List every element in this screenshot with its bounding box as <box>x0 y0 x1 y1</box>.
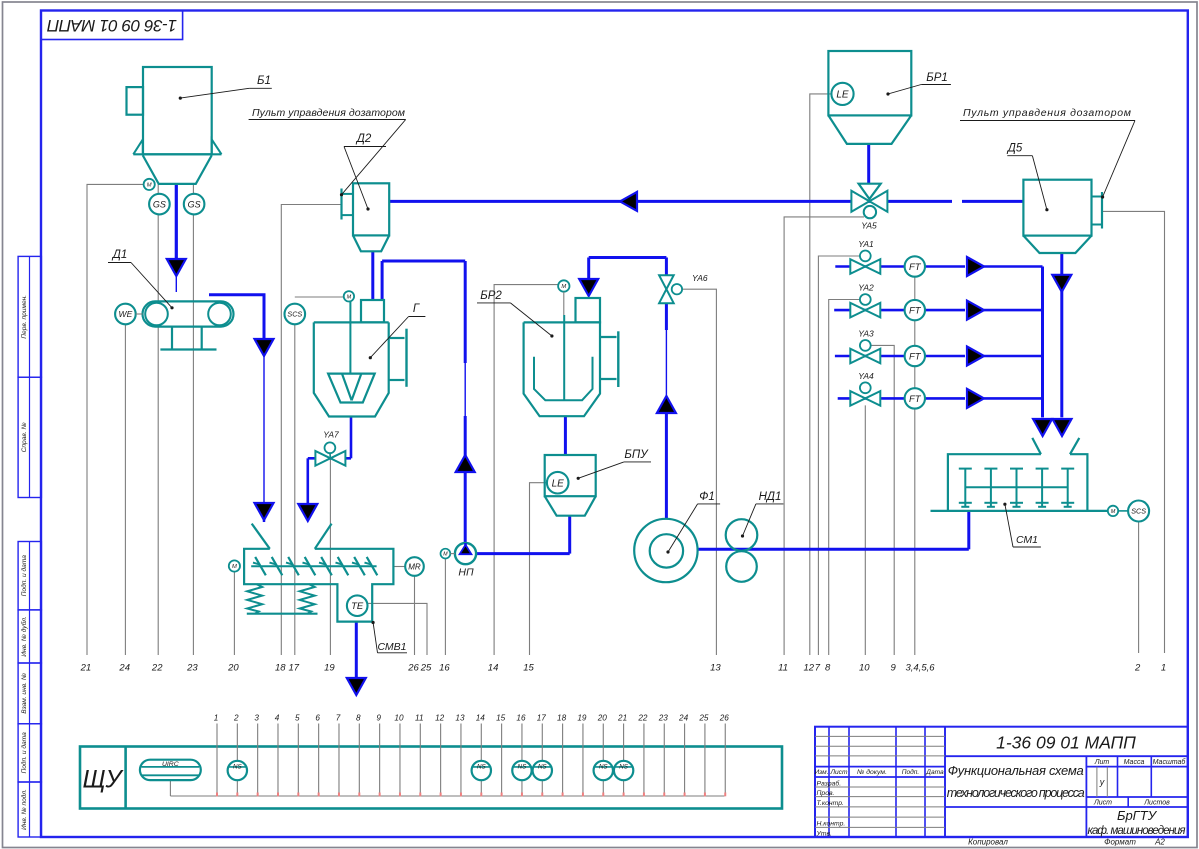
svg-text:2: 2 <box>233 713 239 722</box>
svg-text:Взам. инв. №: Взам. инв. № <box>21 673 28 714</box>
svg-text:24: 24 <box>678 713 689 722</box>
flow transmitter FT4 <box>905 388 925 408</box>
svg-text:21: 21 <box>80 663 92 674</box>
flow arrow on main line (left) <box>620 192 637 211</box>
svg-text:у: у <box>1099 777 1105 787</box>
svg-text:FT: FT <box>909 306 922 317</box>
signal line 10 (YA4) <box>864 405 866 655</box>
svg-text:FT: FT <box>909 351 922 362</box>
flow arrow into СМВ1 right inlet <box>298 504 317 521</box>
flow arrow Д5 line into СМ1 <box>1053 419 1072 436</box>
level sensor LE of БР1 <box>831 83 853 105</box>
svg-text:20: 20 <box>597 713 608 722</box>
svg-text:21: 21 <box>617 713 627 722</box>
svg-text:22: 22 <box>637 713 648 722</box>
motor M of БР2 <box>558 280 569 315</box>
svg-text:6: 6 <box>315 713 320 722</box>
control panel ЩУ box <box>80 747 782 809</box>
svg-text:25: 25 <box>698 713 709 722</box>
signal line 19 (YA7) <box>329 443 331 655</box>
svg-text:Подп. и дата: Подп. и дата <box>20 732 28 774</box>
signal line 15 (LE of БПУ) <box>530 483 547 655</box>
valve YA3 <box>850 340 880 363</box>
label Д2 <box>344 133 386 211</box>
svg-text:GS: GS <box>188 199 201 209</box>
signal line 8 (YA2) <box>829 300 860 656</box>
svg-text:YA7: YA7 <box>323 430 339 440</box>
flow transmitter FT3 <box>905 346 925 366</box>
margin strip Перв. примен. <box>18 256 41 377</box>
svg-text:Копировал: Копировал <box>968 838 1008 847</box>
temperature sensor TE <box>347 595 368 616</box>
doser Д2 <box>342 183 390 251</box>
svg-text:БПУ: БПУ <box>624 449 649 461</box>
flow transmitter FT2 <box>905 300 925 320</box>
panel lamp NS (line 20) <box>594 761 613 780</box>
svg-text:Перв. примен.: Перв. примен. <box>21 295 28 339</box>
svg-text:9: 9 <box>891 663 897 674</box>
valve YA5 <box>851 184 887 219</box>
flow arrow Д5 outlet <box>1052 275 1071 292</box>
signal line 17 (SCS) <box>294 304 296 655</box>
svg-text:Б1: Б1 <box>257 75 271 87</box>
collector pipe YA1-YA4 to СМ1 <box>1041 267 1044 418</box>
svg-text:NS: NS <box>538 763 547 770</box>
svg-text:8: 8 <box>825 663 831 674</box>
hopper Б1 <box>127 67 222 184</box>
level switch GS left <box>149 194 170 215</box>
pipe Б1 outlet <box>175 184 178 292</box>
svg-text:FT: FT <box>909 262 922 273</box>
panel wiring lines 1-26 <box>217 724 725 797</box>
panel line numbers 1-26 <box>214 713 730 722</box>
signal line 12 (LE of БР1) <box>810 94 832 655</box>
valve YA6 <box>659 275 682 303</box>
svg-text:технологического процесса: технологического процесса <box>947 786 1085 800</box>
signal line 3,4,5,6 (FT common) <box>914 267 916 656</box>
label YA1 <box>858 239 874 249</box>
dosing line YA4 <box>838 397 1043 400</box>
label YA6 <box>692 273 708 283</box>
margin strip Взам. инв. № <box>18 663 41 724</box>
svg-text:NS: NS <box>233 763 242 770</box>
svg-text:11: 11 <box>415 713 424 722</box>
flow transmitter FT1 <box>905 256 925 276</box>
svg-text:LE: LE <box>836 90 849 101</box>
dosing line YA3 <box>835 355 1043 358</box>
pipe БР1 outlet into YA5 <box>867 144 870 184</box>
svg-text:Разраб.: Разраб. <box>817 779 842 787</box>
margin strip Инв. № подл. <box>18 782 41 837</box>
svg-text:каф. машиноведения: каф. машиноведения <box>1088 825 1186 837</box>
svg-text:24: 24 <box>118 663 130 674</box>
signal line numbers row <box>80 663 1167 674</box>
svg-text:Пульт управдения дозатором: Пульт управдения дозатором <box>963 107 1131 119</box>
svg-text:YA1: YA1 <box>858 239 874 249</box>
belt feeder Д1 <box>143 301 234 349</box>
label YA7 <box>323 430 339 440</box>
svg-text:Подп. и дата: Подп. и дата <box>20 555 28 597</box>
svg-text:SCS: SCS <box>1131 507 1146 516</box>
pipe НП riser to Г <box>382 261 465 543</box>
pipe Д1 to СМВ1 <box>209 295 264 522</box>
svg-text:M: M <box>1111 509 1116 515</box>
svg-text:Д5: Д5 <box>1006 143 1023 155</box>
signal line 13 (YA6) <box>682 289 717 655</box>
svg-text:Листов: Листов <box>1143 800 1170 807</box>
motor M of Б1 <box>144 179 155 190</box>
flow arrow СМВ1 discharge <box>347 678 366 695</box>
main dosing line Д2-Д5 <box>389 200 1023 203</box>
flow arrow up to YA6 <box>657 396 676 413</box>
svg-text:SCS: SCS <box>287 310 302 319</box>
label БР1 <box>886 72 951 96</box>
svg-text:Т.контр.: Т.контр. <box>817 800 845 807</box>
pipe Д2 outlet into Г <box>371 251 374 300</box>
signal line 16 (M of НП) <box>444 558 446 655</box>
label НП <box>458 567 474 579</box>
signal line SCS-M link <box>295 296 345 298</box>
svg-text:14: 14 <box>488 663 499 674</box>
motor M of НП <box>441 549 455 559</box>
svg-text:M: M <box>561 284 566 290</box>
svg-text:YA5: YA5 <box>861 221 877 231</box>
speed sensor SCS <box>285 304 306 325</box>
label Ф1 <box>666 491 720 554</box>
svg-text:Изм.: Изм. <box>814 769 828 776</box>
label СМ1 <box>1003 503 1041 547</box>
panel lamp NS (line 16) <box>512 761 531 780</box>
doser Д5 <box>1023 180 1102 253</box>
svg-text:5: 5 <box>295 713 300 722</box>
signal line 21 (M of Б1) <box>87 184 144 655</box>
signal line MR link <box>393 566 405 568</box>
panel lamp NS (line 2) <box>228 761 247 780</box>
svg-text:Подп.: Подп. <box>902 768 920 776</box>
margin strip Справ. № <box>18 377 41 497</box>
valve YA7 <box>315 442 345 465</box>
svg-text:10: 10 <box>394 713 404 722</box>
valve YA4 <box>850 382 880 405</box>
svg-text:3: 3 <box>254 713 259 722</box>
svg-text:MR: MR <box>408 562 421 571</box>
svg-text:13: 13 <box>455 713 465 722</box>
signal line 11 (YA5) <box>784 217 864 655</box>
svg-text:26: 26 <box>407 663 419 674</box>
label YA2 <box>858 283 874 293</box>
panel lamp NS (line 14) <box>472 761 491 780</box>
svg-text:YA2: YA2 <box>858 283 874 293</box>
flow arrow into Д1 <box>167 259 186 276</box>
dosing line YA1 <box>835 265 1042 268</box>
svg-text:№ докум.: № докум. <box>857 768 887 776</box>
svg-text:12: 12 <box>435 713 445 722</box>
pump НП <box>455 543 476 564</box>
svg-text:12: 12 <box>804 663 815 674</box>
flow arrow into БР2 neck <box>579 279 598 296</box>
svg-text:1-36 09 01 МАПП: 1-36 09 01 МАПП <box>46 16 177 35</box>
dosing line YA2 <box>834 309 1042 312</box>
flow arrow YA1 line <box>967 257 984 276</box>
flow arrow YA3 line <box>967 347 984 366</box>
svg-text:4: 4 <box>275 713 280 722</box>
label БР2 <box>477 290 554 338</box>
signal line 7 (YA1) <box>818 256 860 655</box>
flow arrow YA4 line <box>967 389 984 408</box>
svg-text:БрГТУ: БрГТУ <box>1117 808 1158 823</box>
svg-text:7: 7 <box>336 713 341 722</box>
mixer-batcher СМВ1 <box>244 524 393 622</box>
svg-text:15: 15 <box>523 663 534 674</box>
svg-text:22: 22 <box>151 663 163 674</box>
svg-text:1-36 09 01 МАПП: 1-36 09 01 МАПП <box>996 733 1136 753</box>
motor M of СМ1 <box>1108 506 1128 516</box>
signal line 26 (MR) <box>414 576 416 655</box>
signal line 25 (TE) <box>367 603 427 655</box>
svg-text:18: 18 <box>275 663 286 674</box>
svg-text:17: 17 <box>537 713 547 722</box>
motor M of Г <box>344 291 354 301</box>
svg-text:NS: NS <box>518 763 527 770</box>
svg-text:NS: NS <box>599 763 608 770</box>
svg-text:СМ1: СМ1 <box>1016 534 1038 546</box>
svg-text:2: 2 <box>1134 663 1141 674</box>
svg-text:Функциональная схема: Функциональная схема <box>948 763 1084 778</box>
svg-text:Пульт управдения дозатором: Пульт управдения дозатором <box>252 107 405 119</box>
svg-text:НП: НП <box>458 567 474 579</box>
svg-text:UIRC: UIRC <box>162 761 179 768</box>
svg-text:Пров.: Пров. <box>817 790 835 797</box>
pipe Д5 outlet <box>1060 253 1063 417</box>
svg-text:20: 20 <box>227 663 239 674</box>
label Б1 <box>179 75 272 100</box>
margin strip Подп. и дата (1) <box>18 542 41 610</box>
label Д1 <box>108 249 174 309</box>
panel red terminals <box>217 793 725 797</box>
pipe Г outlet through YA7 <box>308 417 351 506</box>
label YA4 <box>858 371 874 381</box>
level sensor LE of БПУ <box>547 472 569 494</box>
svg-text:23: 23 <box>658 713 669 722</box>
svg-text:Лист: Лист <box>830 769 848 776</box>
signal line 24 (WE of Д1) <box>124 324 126 655</box>
flow arrow collector into СМ1 <box>1033 419 1052 436</box>
svg-text:LE: LE <box>552 478 565 489</box>
svg-text:FT: FT <box>909 394 922 405</box>
svg-text:NS: NS <box>477 763 486 770</box>
label control panel (Д5) <box>960 107 1135 199</box>
svg-text:19: 19 <box>324 663 335 674</box>
svg-text:WE: WE <box>119 309 133 319</box>
svg-text:Ф1: Ф1 <box>699 491 715 503</box>
svg-text:Утв.: Утв. <box>816 830 833 837</box>
label YA3 <box>858 329 874 339</box>
svg-text:А2: А2 <box>1154 838 1165 847</box>
svg-text:M: M <box>443 551 448 557</box>
svg-text:Инв. № подл.: Инв. № подл. <box>20 789 28 830</box>
svg-text:ЩУ: ЩУ <box>82 766 124 794</box>
signal line 20 (M of СМВ1) <box>233 572 235 656</box>
motor M of СМВ1 <box>229 560 240 571</box>
signal line 22 (GS left) <box>157 184 159 655</box>
recorder UIRC <box>140 760 201 780</box>
tank БР1 <box>828 51 911 144</box>
flow arrow into СМВ1 left inlet <box>255 503 274 520</box>
pipe БР2 outlet to БПУ <box>564 416 567 455</box>
sifter Ф1 <box>634 519 697 582</box>
weight sensor WE <box>115 304 142 325</box>
svg-text:БР2: БР2 <box>480 290 502 302</box>
panel lamp NS (line 21) <box>614 761 633 780</box>
label БПУ <box>577 449 651 480</box>
svg-text:10: 10 <box>859 663 870 674</box>
svg-text:Справ. №: Справ. № <box>21 422 28 452</box>
title block <box>814 727 1187 847</box>
svg-text:YA4: YA4 <box>858 371 874 381</box>
signal line 14 (M of БР2) <box>494 285 558 655</box>
svg-text:15: 15 <box>496 713 506 722</box>
svg-text:23: 23 <box>186 663 198 674</box>
panel lamp NS (line 17) <box>533 761 552 780</box>
panel bus line <box>170 780 724 796</box>
flow arrow YA2 line <box>967 301 984 320</box>
svg-text:Н.контр.: Н.контр. <box>817 821 846 828</box>
signal line 2 (SCS of СМ1) <box>1138 522 1140 654</box>
grinder Г <box>314 300 407 417</box>
level switch GS right <box>184 194 205 215</box>
svg-text:НД1: НД1 <box>759 491 782 503</box>
pipe СМВ1 product discharge <box>355 622 358 678</box>
label НД1 <box>741 491 784 538</box>
svg-text:25: 25 <box>420 663 432 674</box>
svg-text:1: 1 <box>214 713 219 722</box>
svg-text:Д1: Д1 <box>111 249 128 261</box>
svg-text:Формат: Формат <box>1104 838 1136 847</box>
margin strip Подп. и дата (2) <box>18 724 41 782</box>
svg-text:Инв. № дубл.: Инв. № дубл. <box>20 616 28 657</box>
label Д5 <box>1006 143 1049 212</box>
svg-text:7: 7 <box>815 663 821 674</box>
svg-text:NS: NS <box>619 763 628 770</box>
svg-text:TE: TE <box>351 601 364 612</box>
svg-text:1: 1 <box>1161 663 1166 674</box>
svg-text:19: 19 <box>577 713 587 722</box>
svg-text:GS: GS <box>153 199 166 209</box>
svg-text:Лист: Лист <box>1093 800 1112 807</box>
svg-text:9: 9 <box>376 713 381 722</box>
signal line 1 (Д5 control panel) <box>1103 211 1165 653</box>
svg-text:8: 8 <box>356 713 361 722</box>
rotated designation box <box>41 11 183 40</box>
label YA5 <box>861 221 877 231</box>
svg-text:11: 11 <box>778 663 788 674</box>
signal line 23 (GS right) <box>192 184 194 655</box>
svg-text:M: M <box>232 564 237 570</box>
svg-text:17: 17 <box>289 663 300 674</box>
receiving hopper БПУ <box>545 455 596 516</box>
flow arrow on НП riser <box>456 455 475 472</box>
product line СМ1-НД1-Ф1 <box>698 511 969 549</box>
signal line 9 (YA3) <box>871 345 895 655</box>
svg-text:Масштаб: Масштаб <box>1153 758 1187 766</box>
svg-text:26: 26 <box>719 713 730 722</box>
svg-text:YA6: YA6 <box>692 273 708 283</box>
margin strip Инв. № дубл. <box>18 610 41 663</box>
svg-text:13: 13 <box>710 663 721 674</box>
flow arrow on Д1-СМВ1 pipe <box>255 339 274 356</box>
rollers НД1 <box>726 519 758 582</box>
label Г <box>369 303 426 359</box>
svg-text:Дата: Дата <box>925 769 944 776</box>
valve YA1 <box>850 251 880 274</box>
svg-text:Масса: Масса <box>1124 759 1145 766</box>
pipe Ф1 riser through YA6 to БР2 <box>589 258 667 519</box>
tank БР2 <box>524 298 619 416</box>
svg-text:БР1: БР1 <box>926 72 948 84</box>
label control panel (Д2) <box>249 107 406 196</box>
controller MR <box>405 557 424 576</box>
speed sensor SCS of СМ1 <box>1128 501 1149 522</box>
svg-text:YA3: YA3 <box>858 329 874 339</box>
svg-text:M: M <box>147 182 152 188</box>
svg-text:3,4,5,6: 3,4,5,6 <box>905 663 935 674</box>
pipe БПУ to НП <box>476 516 570 554</box>
svg-text:Г: Г <box>413 303 420 315</box>
label СМВ1 <box>372 621 408 653</box>
signal line 18 (Д2 control panel) <box>281 205 341 656</box>
svg-text:14: 14 <box>476 713 486 722</box>
svg-text:Лит: Лит <box>1094 759 1110 766</box>
svg-text:Д2: Д2 <box>355 133 372 145</box>
mixer СМ1 <box>931 438 1108 511</box>
valve YA2 <box>850 294 880 317</box>
svg-text:M: M <box>347 294 352 300</box>
svg-text:16: 16 <box>439 663 450 674</box>
svg-text:16: 16 <box>516 713 526 722</box>
svg-text:18: 18 <box>557 713 567 722</box>
svg-text:СМВ1: СМВ1 <box>377 641 406 653</box>
